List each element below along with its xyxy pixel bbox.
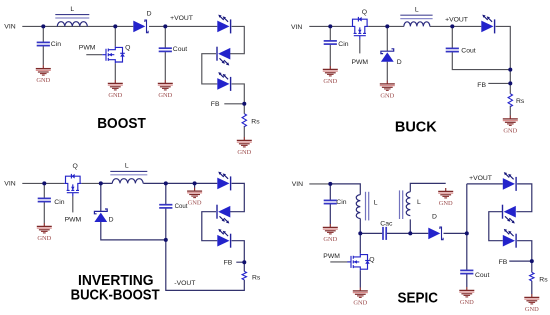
svg-text:FB: FB xyxy=(477,82,486,89)
svg-text:Cout: Cout xyxy=(475,272,489,279)
svg-text:Q: Q xyxy=(125,44,130,51)
svg-text:Cout: Cout xyxy=(461,47,475,54)
svg-text:L: L xyxy=(417,199,421,206)
svg-text:VIN: VIN xyxy=(4,24,15,31)
svg-text:VIN: VIN xyxy=(292,181,303,188)
svg-text:D: D xyxy=(432,213,437,220)
svg-text:BUCK-BOOST: BUCK-BOOST xyxy=(71,287,160,303)
svg-text:VIN: VIN xyxy=(291,24,302,31)
svg-text:L: L xyxy=(125,163,129,170)
svg-text:Rs: Rs xyxy=(516,98,525,105)
svg-text:Q: Q xyxy=(362,9,367,16)
svg-text:BUCK: BUCK xyxy=(395,119,437,135)
svg-text:+VOUT: +VOUT xyxy=(445,17,468,24)
svg-text:PWM: PWM xyxy=(65,216,82,223)
svg-text:D: D xyxy=(397,59,402,66)
svg-text:Rs: Rs xyxy=(251,119,260,126)
svg-text:Cout: Cout xyxy=(173,46,187,53)
svg-text:FB: FB xyxy=(499,259,508,266)
svg-text:Rs: Rs xyxy=(539,276,548,283)
svg-text:Cac: Cac xyxy=(380,221,393,228)
svg-text:BOOST: BOOST xyxy=(97,116,146,132)
svg-text:+VOUT: +VOUT xyxy=(170,15,193,22)
svg-text:Cin: Cin xyxy=(338,41,348,48)
svg-text:Q: Q xyxy=(73,163,78,170)
svg-text:FB: FB xyxy=(224,260,233,267)
svg-text:Cin: Cin xyxy=(54,199,64,206)
svg-text:PWM: PWM xyxy=(79,45,96,52)
svg-text:Cin: Cin xyxy=(336,199,346,206)
svg-text:+VOUT: +VOUT xyxy=(469,175,492,182)
svg-text:PWM: PWM xyxy=(323,253,340,260)
svg-text:Rs: Rs xyxy=(252,274,261,281)
svg-text:FB: FB xyxy=(211,101,220,108)
svg-text:Q: Q xyxy=(369,256,374,263)
svg-text:Cin: Cin xyxy=(51,41,61,48)
svg-text:Cout: Cout xyxy=(175,203,188,210)
svg-text:L: L xyxy=(415,6,419,13)
svg-text:D: D xyxy=(109,216,114,223)
svg-text:INVERTING: INVERTING xyxy=(78,273,154,289)
svg-text:VIN: VIN xyxy=(4,181,15,188)
svg-text:-VOUT: -VOUT xyxy=(174,280,195,287)
svg-text:D: D xyxy=(147,10,152,17)
svg-text:PWM: PWM xyxy=(352,59,369,66)
svg-text:SEPIC: SEPIC xyxy=(398,290,439,306)
svg-text:L: L xyxy=(70,6,74,13)
svg-text:L: L xyxy=(374,199,378,206)
